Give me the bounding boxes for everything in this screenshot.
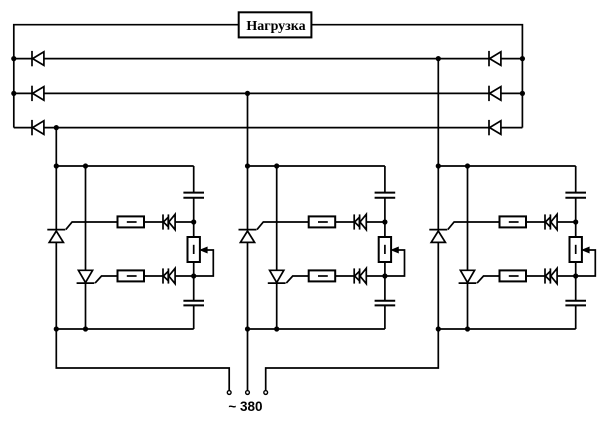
- resistor R5: [500, 216, 527, 227]
- diode VD3: [32, 120, 44, 135]
- wire phase line 2: [14, 92, 523, 94]
- wire module 3 main vertical upper: [437, 59, 439, 230]
- potentiometer RP3 wiper arrow: [582, 247, 589, 252]
- wire module 2 right chain: C3 to C4: [384, 198, 386, 301]
- junction module 1 top rail / second vertical: [83, 163, 88, 168]
- junction module 2 top rail / main vertical: [245, 163, 250, 168]
- diode VD7: [163, 214, 168, 229]
- node phase tap module 1: [54, 125, 59, 130]
- wire module 1 second vertical (thyristor VS2 branch): [85, 166, 87, 329]
- thyristor VS5: [429, 230, 447, 243]
- wire module 3 main vertical lower to terminal 3: [266, 242, 439, 390]
- wire phase line 1: [14, 58, 523, 60]
- wire module 3 gate branch 1: [448, 222, 576, 230]
- terminal A: [227, 391, 231, 395]
- diode VD14: [360, 268, 367, 283]
- potentiometer RP2 wiper arrow: [392, 247, 399, 252]
- potentiometer RP1 wiper arrow: [200, 247, 207, 252]
- wire module 2 potentiometer wiper: [385, 250, 405, 276]
- wire module 2 second vertical (thyristor VS4 branch): [276, 166, 278, 329]
- wire module 2 right chain: top rail to C3: [384, 166, 386, 193]
- thyristor VS3: [239, 230, 257, 243]
- junction module 2 branch 2 / right chain: [382, 273, 387, 278]
- junction left bus / phase 1: [11, 56, 16, 61]
- wire module 2 right chain: C4 to bottom rail: [384, 305, 386, 329]
- wire module 1 right chain: C1 to C2: [193, 198, 195, 301]
- diode VD5: [489, 86, 501, 101]
- diode VD8: [168, 214, 175, 229]
- svg-text:~ 380: ~ 380: [228, 399, 262, 414]
- junction module 1 branch 1 / right chain: [191, 219, 196, 224]
- wire module 3 bottom rail: [438, 328, 575, 330]
- wire module 2 main vertical lower to terminal 2: [247, 242, 249, 390]
- wire top-left: left bus to load box: [14, 25, 239, 128]
- thyristor VS2: [77, 270, 95, 283]
- resistor R1: [118, 216, 145, 227]
- junction module 3 branch 1 / right chain: [573, 219, 578, 224]
- potentiometer RP1: [188, 237, 200, 262]
- diode VD6: [489, 120, 501, 135]
- capacitor C4: [375, 301, 396, 306]
- wire module 1 gate branch 2: [95, 276, 194, 283]
- wire module 1 right chain: top rail to C1: [193, 166, 195, 193]
- junction left bus / phase 2: [11, 91, 16, 96]
- junction module 1 bottom rail / main vertical: [54, 326, 59, 331]
- diode VD10: [168, 268, 175, 283]
- wire top-right: load box to right bus: [311, 25, 522, 128]
- junction module 1 top rail / main vertical: [54, 163, 59, 168]
- junction module 3 branch 2 / right chain: [573, 273, 578, 278]
- diode VD2: [32, 86, 44, 101]
- diode VD12: [360, 214, 367, 229]
- node phase tap module 2: [245, 91, 250, 96]
- capacitor C3: [375, 193, 396, 198]
- load box "Нагрузка": [239, 12, 312, 37]
- wire module 3 potentiometer wiper: [576, 250, 596, 276]
- potentiometer RP2: [379, 237, 391, 262]
- thyristor VS1: [47, 230, 65, 243]
- diode VD1: [32, 51, 44, 66]
- wire module 1 right chain: C2 to bottom rail: [193, 305, 195, 329]
- wire module 1 main vertical upper: [55, 128, 57, 230]
- diode VD11: [354, 214, 359, 229]
- terminal C: [264, 391, 268, 395]
- capacitor C6: [565, 301, 586, 306]
- resistor R4: [309, 270, 336, 281]
- diode VD15: [545, 214, 550, 229]
- wire module 3 right chain: C5 to C6: [575, 198, 577, 301]
- wire module 2 gate branch 2: [286, 276, 385, 283]
- junction module 2 top rail / second vertical: [274, 163, 279, 168]
- wire module 2 main vertical upper: [247, 93, 249, 229]
- wire module 3 top rail: [438, 165, 575, 167]
- wire phase line 3: [14, 127, 523, 129]
- wire module 1 gate branch 1: [66, 222, 194, 230]
- wire module 1 bottom rail: [56, 328, 193, 330]
- diode VD13: [354, 268, 359, 283]
- junction module 1 branch 2 / right chain: [191, 273, 196, 278]
- terminal B: [246, 391, 250, 395]
- wire module 1 potentiometer wiper: [194, 250, 214, 276]
- wire module 2 top rail: [248, 165, 385, 167]
- wire module 3 right chain: top rail to C5: [575, 166, 577, 193]
- resistor R3: [309, 216, 336, 227]
- wire module 3 right chain: C6 to bottom rail: [575, 305, 577, 329]
- diode VD18: [550, 268, 557, 283]
- wire module 1 main vertical lower to terminal 1: [56, 242, 229, 390]
- thyristor VS4: [268, 270, 286, 283]
- wire module 3 gate branch 2: [477, 276, 576, 283]
- junction module 2 bottom rail / main vertical: [245, 326, 250, 331]
- diode VD17: [545, 268, 550, 283]
- junction module 3 top rail / main vertical: [436, 163, 441, 168]
- resistor R2: [118, 270, 145, 281]
- resistor R6: [500, 270, 527, 281]
- junction right bus / phase 1: [520, 56, 525, 61]
- diode VD16: [550, 214, 557, 229]
- thyristor VS6: [459, 270, 477, 283]
- diode VD4: [489, 51, 501, 66]
- potentiometer RP3: [570, 237, 582, 262]
- wire module 2 gate branch 1: [257, 222, 385, 230]
- junction module 2 branch 1 / right chain: [382, 219, 387, 224]
- junction module 2 bottom rail / second vertical: [274, 326, 279, 331]
- wire module 3 second vertical (thyristor VS6 branch): [467, 166, 469, 329]
- junction module 3 bottom rail / second vertical: [465, 326, 470, 331]
- junction right bus / phase 2: [520, 91, 525, 96]
- diode VD9: [163, 268, 168, 283]
- capacitor C2: [183, 301, 204, 306]
- junction module 3 bottom rail / main vertical: [436, 326, 441, 331]
- svg-text:Нагрузка: Нагрузка: [246, 19, 305, 34]
- node phase tap module 3: [436, 56, 441, 61]
- wire module 2 bottom rail: [248, 328, 385, 330]
- capacitor C1: [183, 193, 204, 198]
- capacitor C5: [565, 193, 586, 198]
- junction module 3 top rail / second vertical: [465, 163, 470, 168]
- junction module 1 bottom rail / second vertical: [83, 326, 88, 331]
- wire module 1 top rail: [56, 165, 193, 167]
